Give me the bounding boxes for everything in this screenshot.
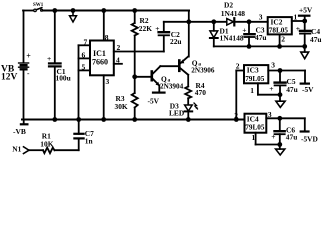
svg-text:1: 1	[252, 133, 256, 142]
svg-text:+: +	[26, 52, 31, 61]
capacitor C5	[269, 71, 285, 95]
wire top rail	[43, 10, 189, 12]
svg-text:10K: 10K	[40, 139, 53, 148]
resistor R4	[185, 87, 191, 99]
capacitor C6	[271, 118, 284, 144]
wire IC4 pin1 to C6 bottom	[256, 144, 280, 146]
svg-text:2: 2	[281, 35, 285, 44]
node R3 top	[132, 74, 137, 79]
node R2 top	[132, 8, 137, 13]
svg-text:30K: 30K	[115, 102, 128, 111]
capacitor C2	[155, 24, 169, 36]
svg-text:3: 3	[271, 61, 275, 70]
transistor Q2 2N3906	[179, 56, 188, 74]
svg-text:3: 3	[268, 110, 272, 119]
svg-text:+: +	[47, 54, 51, 63]
pin 1 wire IC4	[255, 133, 257, 145]
svg-text:47u: 47u	[286, 85, 298, 94]
node C5 top	[278, 68, 283, 73]
capacitor C4	[296, 21, 311, 46]
node +5V	[302, 19, 307, 24]
wire R2 bottom to node	[134, 36, 136, 77]
node C3 top	[247, 19, 252, 24]
wire IC2 ground line	[214, 45, 305, 47]
wire Q1 collector to Q2 base	[160, 65, 178, 67]
svg-text:IC4: IC4	[247, 114, 259, 123]
down arrow symbol	[70, 11, 77, 23]
pin 3 wire IC3	[268, 70, 305, 72]
pin 1 wire IC2	[292, 20, 305, 22]
capacitor C7	[74, 134, 83, 139]
svg-text:-5V: -5V	[302, 85, 314, 94]
ground IC4	[276, 145, 285, 156]
IC2 box	[268, 17, 292, 34]
svg-text:2N3906: 2N3906	[191, 66, 215, 74]
transistor Q1 2N3904	[152, 66, 161, 92]
wire Q2 collector to R4	[187, 75, 189, 87]
svg-text:+: +	[271, 132, 275, 141]
wire C1 top	[54, 11, 56, 63]
capacitor C3	[242, 22, 254, 47]
wire battery bottom	[23, 69, 25, 119]
svg-text:+5V: +5V	[299, 6, 313, 15]
svg-text:2: 2	[236, 61, 240, 70]
svg-text:7660: 7660	[92, 58, 108, 67]
node C5 bottom	[278, 92, 283, 97]
node arrow junction	[71, 8, 76, 13]
pin 6 wire	[79, 57, 91, 59]
svg-text:7: 7	[84, 38, 88, 47]
node C1 bottom rail	[52, 117, 57, 122]
pin 3 wire IC4	[266, 117, 305, 119]
svg-text:22K: 22K	[139, 24, 152, 33]
terminal -5V under Q1	[153, 91, 165, 93]
wire C2 pin2 riser	[163, 36, 165, 52]
svg-text:100u: 100u	[56, 74, 71, 83]
terminal +5V	[299, 16, 309, 21]
pin 3 wire	[103, 75, 105, 119]
node Q2 emitter rail	[186, 19, 191, 24]
ground IC2	[301, 46, 309, 58]
svg-text:-VB: -VB	[13, 127, 26, 136]
svg-text:+: +	[155, 24, 159, 33]
wire battery top	[23, 11, 25, 63]
svg-text:3: 3	[106, 77, 110, 86]
svg-text:6: 6	[82, 51, 86, 60]
pin 4 wire	[114, 63, 122, 65]
svg-text:5: 5	[82, 63, 86, 72]
diode D1 1N4148	[210, 22, 218, 47]
svg-text:470: 470	[195, 88, 206, 97]
svg-text:1: 1	[250, 86, 254, 95]
capacitor C1	[47, 54, 61, 66]
LED D3	[185, 103, 198, 120]
node C7 rail	[76, 117, 81, 122]
svg-text:-5VD: -5VD	[301, 134, 318, 143]
wire rail corner down	[188, 11, 190, 22]
terminal -5V	[301, 71, 309, 84]
wire Q2 emitter up	[188, 22, 190, 57]
svg-text:N1: N1	[12, 145, 21, 154]
input chevron N1	[24, 147, 29, 154]
wire C2 top	[163, 22, 165, 31]
svg-text:1n: 1n	[85, 136, 93, 145]
svg-text:79L05: 79L05	[245, 124, 265, 132]
wire node to Q1 base	[135, 76, 151, 78]
pin 2 wire	[114, 51, 164, 53]
node R3 rail	[132, 117, 137, 122]
battery VB	[19, 52, 32, 78]
resistor R2	[132, 11, 138, 36]
svg-text:+: +	[269, 84, 273, 93]
node pin8 top	[101, 8, 106, 13]
svg-text:78L05: 78L05	[269, 27, 289, 35]
wire IC3 input to rail	[235, 71, 237, 120]
pin 8 wire	[103, 11, 105, 41]
node IC3 input rail	[234, 117, 239, 122]
svg-text:22u: 22u	[170, 37, 182, 46]
svg-text:+: +	[242, 25, 246, 34]
node LED rail	[186, 117, 191, 122]
wire C7 riser	[78, 139, 80, 150]
terminal -VB	[21, 120, 28, 125]
svg-text:47u: 47u	[255, 33, 267, 42]
wire IC3 pin1 to C5 bottom	[258, 94, 280, 96]
svg-text:IC3: IC3	[247, 66, 259, 75]
node C6 bottom	[277, 142, 282, 147]
switch SW1	[33, 3, 44, 11]
pin 2 wire IC3	[236, 70, 244, 72]
IC4 box	[245, 114, 267, 133]
node C4 bottom	[302, 44, 307, 49]
svg-text:3: 3	[259, 13, 263, 22]
node D1 top	[211, 19, 216, 24]
node pin3 rail	[101, 117, 106, 122]
ground IC3	[276, 95, 285, 108]
node IC2 pin2	[277, 44, 282, 49]
svg-text:-5V: -5V	[148, 97, 160, 106]
wire N1 to R1	[29, 149, 43, 151]
svg-text:8: 8	[105, 33, 109, 42]
pin 1 wire IC3	[257, 83, 259, 94]
svg-text:2N3904: 2N3904	[160, 83, 184, 91]
wire R1 to C7	[55, 149, 79, 151]
IC1 box	[90, 41, 114, 76]
resistor R3	[132, 77, 138, 120]
wire R4 to LED	[187, 98, 189, 104]
svg-text:1N4148: 1N4148	[220, 34, 244, 43]
svg-text:12V: 12V	[1, 73, 18, 83]
wire pins 5-6-7 to bottom rail	[78, 45, 80, 119]
node C3 bottom	[247, 44, 252, 49]
terminal -5VD	[301, 118, 309, 131]
svg-text:SW1: SW1	[33, 3, 44, 8]
svg-text:+: +	[296, 24, 300, 33]
svg-text:1: 1	[294, 12, 298, 21]
node C6 top	[277, 116, 282, 121]
wire C1 bottom	[54, 67, 56, 119]
pin 2 wire IC2	[279, 34, 281, 46]
node C1 top	[52, 8, 57, 13]
svg-text:4: 4	[116, 56, 120, 65]
svg-text:2: 2	[117, 43, 121, 52]
diode D2 1N4148	[227, 18, 268, 25]
pin 7 wire	[79, 44, 91, 46]
wire top rail left segment	[23, 10, 34, 12]
svg-text:2: 2	[234, 111, 238, 120]
wire C7 top	[78, 120, 80, 134]
pin 5 wire	[79, 69, 91, 71]
IC3 box	[244, 65, 268, 83]
svg-text:1N4148: 1N4148	[221, 9, 245, 18]
bottom rail -VB	[22, 119, 245, 121]
svg-text:LED: LED	[169, 109, 184, 118]
resistor R1	[43, 148, 55, 154]
svg-text:IC2: IC2	[271, 18, 283, 27]
svg-text:47u: 47u	[286, 133, 298, 142]
wire horizontal +V line	[164, 21, 227, 23]
svg-text:47u: 47u	[310, 35, 322, 44]
svg-text:79L05: 79L05	[245, 75, 265, 83]
